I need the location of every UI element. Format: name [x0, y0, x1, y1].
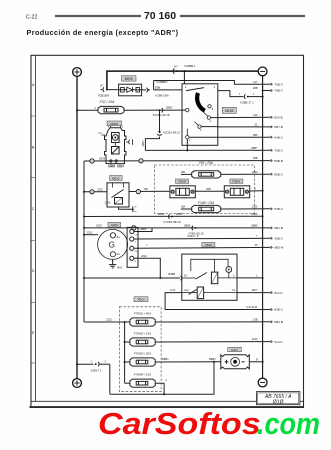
- svg-text:63B-C: 63B-C: [274, 207, 284, 211]
- svg-text:2: 2: [166, 379, 168, 382]
- svg-text:MA5: MA5: [117, 267, 123, 270]
- svg-text:D+: D+: [117, 252, 121, 256]
- svg-text:D+: D+: [184, 273, 188, 277]
- wire strip pin2 to exit 30B-C: [134, 237, 271, 240]
- svg-text:2BB6: 2BB6: [176, 212, 183, 216]
- contact lead mid: [204, 112, 208, 116]
- component ref 7B14 (hatched label, fuse box): [134, 297, 148, 302]
- end dot lighter wire: [262, 361, 264, 363]
- wire through diode module: [108, 89, 146, 91]
- fuse F01 body: [192, 171, 221, 178]
- S01 wire left jog: [165, 293, 263, 310]
- wire upper branch to exit 75B-C: [154, 81, 271, 85]
- wire fuse F7M04 to bottom run: [155, 383, 164, 394]
- switch contact circle mid (row 314): [207, 116, 210, 119]
- F500 sensor dot: [228, 269, 230, 271]
- svg-text:1: 1: [253, 93, 255, 96]
- svg-text:K327: K327: [231, 348, 238, 352]
- svg-text:1: 1: [255, 187, 257, 190]
- wire from switch bottom to wire A: [186, 139, 188, 151]
- wire strip pin3 to exit 8B5-M: [134, 246, 271, 249]
- svg-text:A: A: [32, 83, 35, 87]
- splice circle 1 right: [139, 159, 143, 163]
- svg-text:G: G: [109, 241, 115, 250]
- fuse box dashed outline: [119, 307, 161, 392]
- wire into fuse F34B: [181, 208, 192, 210]
- alternator connector strip: [127, 227, 138, 267]
- svg-text:K29BB.1: K29BB.1: [184, 64, 195, 68]
- svg-text:2: 2: [200, 129, 202, 132]
- svg-text:2BB7: 2BB7: [141, 140, 145, 147]
- svg-text:2222: 2222: [141, 254, 147, 258]
- lighter element dot: [233, 360, 237, 364]
- connector H7 feeding diode module: [101, 87, 108, 92]
- exit arrow 82B-C: [271, 308, 273, 310]
- junction plus bus fuse wire: [76, 109, 78, 111]
- junction 78B-C stub: [262, 90, 264, 92]
- diode holder right box: [224, 186, 249, 198]
- frame inner left margin line: [34, 55, 36, 401]
- wire from plus bus to connector K2B17.1: [77, 363, 94, 365]
- svg-text:B3BB: B3BB: [169, 272, 176, 276]
- svg-text:Ø1Ø: Ø1Ø: [273, 399, 284, 405]
- connector on row 228: [192, 226, 196, 231]
- svg-text:1: 1: [256, 274, 258, 278]
- exit arrow 30B-C: [271, 237, 273, 239]
- wire into fuse F01: [181, 173, 192, 175]
- connector arc below splice: [157, 134, 162, 135]
- svg-text:B: B: [32, 146, 35, 150]
- connector K2B17.1: [95, 362, 99, 367]
- svg-text:F7M01 / 40A: F7M01 / 40A: [134, 312, 151, 316]
- wire A: supply wire row B from jog corner to exit: [145, 149, 270, 151]
- svg-text:F01 / 25A: F01 / 25A: [199, 161, 213, 165]
- wire strip pin4 to relay box F500: [134, 258, 160, 278]
- svg-text:65B-C: 65B-C: [274, 172, 284, 176]
- wire: thick feed from diode module junction to minus terminal (top): [107, 71, 258, 90]
- fuse F7M03 body: [125, 358, 156, 366]
- starter pin 1: [120, 126, 122, 128]
- wire S01 to exit 82B-C: [263, 309, 271, 311]
- junction x84 alternator wire: [83, 234, 85, 236]
- row tick 2: [31, 176, 35, 178]
- svg-text:2B4: 2B4: [181, 205, 186, 208]
- F500 contact angled line: [196, 273, 208, 280]
- exit arrow 63B-C: [271, 208, 273, 210]
- exit arrow 78B-C: [271, 89, 273, 91]
- bottom drop vertical: [109, 364, 111, 394]
- svg-text:147: 147: [253, 80, 258, 84]
- alternator ground: [109, 259, 116, 268]
- switch rotary wedge (thick arc): [197, 93, 205, 111]
- cigar lighter K327 body: [221, 355, 250, 369]
- contact lead lower: [195, 122, 199, 126]
- svg-text:Sec: Sec: [185, 288, 190, 292]
- svg-text:F9004: F9004: [178, 180, 186, 184]
- starter internal link: [114, 143, 116, 147]
- component ref M12B (hatched label, ignition switch): [222, 107, 236, 113]
- svg-text:30a: 30a: [110, 165, 115, 168]
- wire fuse F7M03 to lighter K327: [155, 361, 220, 363]
- starter assembly body: [105, 128, 127, 164]
- svg-text:35B: 35B: [206, 187, 211, 191]
- starter motor box: [112, 133, 120, 143]
- exit arrow 8B5-M: [271, 246, 273, 248]
- strip pin circle 2: [130, 237, 134, 241]
- starter pin 3: [110, 126, 112, 128]
- svg-text:7: 7: [256, 234, 258, 238]
- switch contact circle left (input): [186, 108, 189, 111]
- svg-text:2: 2: [189, 139, 191, 142]
- row tick 1: [31, 115, 35, 117]
- svg-text:2B5: 2B5: [253, 133, 258, 137]
- svg-text:A020: A020: [111, 223, 118, 227]
- fuse F7M02 body: [125, 338, 156, 346]
- svg-text:82V-B: 82V-B: [274, 116, 282, 120]
- svg-text:2BB6: 2BB6: [140, 227, 147, 231]
- svg-text:314: 314: [253, 113, 258, 117]
- svg-text:612-C: 612-C: [274, 291, 283, 295]
- svg-text:2225: 2225: [105, 200, 111, 204]
- svg-text:78B-C: 78B-C: [274, 89, 284, 93]
- row tick 5: [31, 362, 35, 364]
- connector arc on fuse wire: [162, 108, 163, 113]
- exit arrow 82V-B: [271, 116, 273, 118]
- relay M022 top pin stubs: [113, 183, 124, 188]
- svg-text:64B-C: 64B-C: [274, 135, 284, 139]
- svg-text:8B1-B: 8B1-B: [274, 226, 283, 230]
- F500 wire coil2 to C1 pin: [204, 292, 237, 294]
- F500 main wire to coil: [182, 277, 196, 279]
- exit arrow 65B-C: [271, 173, 273, 175]
- fuse F7M04 body: [125, 379, 156, 387]
- wire switch row to exit 82V-B: [211, 116, 271, 118]
- starter right mini ground connector: [126, 139, 133, 145]
- exit arrow 75B-C row B: [271, 149, 273, 151]
- component ref F9004 right (hatched label): [230, 179, 243, 184]
- svg-text:1BB: 1BB: [253, 86, 258, 90]
- F500 sensor drop: [228, 272, 230, 278]
- starter contact tap right: [115, 160, 117, 162]
- F500 Sec contact: [189, 290, 197, 295]
- svg-text:22: 22: [255, 123, 258, 127]
- svg-text:C: C: [32, 207, 35, 211]
- starter H7 stub wire: [102, 134, 105, 136]
- wire lighter to negative bus: [249, 361, 262, 363]
- component ref M022 (hatched label, preheat relay): [110, 176, 123, 181]
- wire row 228 to exit 8B1-B: [84, 227, 270, 229]
- relay M022 lower box: [115, 198, 123, 205]
- svg-text:E: E: [32, 331, 35, 335]
- alternator terminal circle upper: [110, 233, 115, 238]
- switch top contact line: [186, 88, 204, 91]
- vertical distribution wire x84: [83, 161, 85, 322]
- junction fuse row1: [124, 321, 126, 323]
- svg-text:2BB6: 2BB6: [184, 224, 191, 228]
- svg-text:BBB1: BBB1: [162, 357, 169, 361]
- svg-text:7BB: 7BB: [253, 156, 258, 160]
- wire row 216.5: [84, 215, 263, 217]
- connector on wire 216.5: [169, 214, 173, 219]
- lighter plus sign: [225, 360, 229, 364]
- connector K2BB-17.1: [244, 94, 248, 99]
- svg-text:2: 2: [105, 361, 107, 364]
- F500 wire coil to C pin: [218, 277, 237, 279]
- fuse F7M01 body: [125, 318, 156, 326]
- svg-text:23B: 23B: [253, 317, 258, 321]
- svg-text:1BB: 1BB: [155, 85, 160, 89]
- relay M022 contact: [112, 190, 124, 198]
- svg-text:70 160: 70 160: [144, 10, 176, 22]
- svg-text:4: 4: [214, 86, 216, 89]
- F500 coil top link: [214, 259, 216, 272]
- svg-text:7: 7: [135, 242, 137, 244]
- connector at relay D+ input: [181, 276, 182, 281]
- strip pin circle 1: [130, 229, 134, 233]
- starter terminal 50 (hatched): [117, 164, 123, 168]
- wire vertical drop from fuse wire junction: [159, 110, 161, 132]
- svg-text:C1: C1: [232, 288, 236, 292]
- starter solenoid coil: [112, 147, 120, 155]
- svg-text:1: 1: [210, 120, 212, 123]
- connector H7 on top wire (K29BB.1): [173, 69, 177, 74]
- junction fuse row2: [124, 341, 126, 343]
- bottom heavy rule: [30, 406, 305, 408]
- svg-text:8B4-B: 8B4-B: [274, 320, 283, 324]
- svg-text:M12B: M12B: [225, 109, 233, 113]
- svg-text:B+: B+: [117, 235, 121, 239]
- svg-text:F34B / 25A: F34B / 25A: [198, 201, 214, 205]
- svg-text:7B14: 7B14: [137, 298, 144, 302]
- starter terminal 30a (hatched): [109, 164, 115, 168]
- svg-text:613-C: 613-C: [274, 340, 283, 344]
- exit arrow 612-C: [271, 292, 273, 294]
- wire x84 to alternator B+: [84, 234, 98, 236]
- svg-text:2224: 2224: [252, 337, 258, 341]
- starter motor dot: [114, 137, 116, 139]
- wire fuse F7M02 to exit 613-C: [155, 341, 270, 343]
- svg-text:1B77: 1B77: [251, 288, 258, 292]
- svg-text:2223: 2223: [252, 170, 258, 174]
- exit arrow 8B7-B: [271, 126, 273, 128]
- D+ feed wire from x84 vertical: [84, 277, 180, 279]
- diode module U box: [119, 84, 142, 96]
- title block box: [256, 392, 300, 406]
- header rule right: [180, 15, 305, 17]
- feed into fuse row 1 from x84: [84, 321, 130, 323]
- switch contact circle upper right: [208, 105, 211, 108]
- wire diode holder right to negative bus: [250, 190, 263, 192]
- relay M022 box: [107, 183, 129, 207]
- wire strip pin1 to row 228: [134, 228, 152, 232]
- svg-text:5141: 5141: [252, 305, 258, 309]
- svg-text:M001: M001: [111, 122, 119, 126]
- strip pin circle 4: [130, 256, 134, 260]
- component ref F500 (hatched label, relay unit): [202, 242, 215, 247]
- svg-text:1: 1: [239, 93, 241, 96]
- svg-text:25: 25: [255, 243, 258, 247]
- svg-text:2B26: 2B26: [251, 212, 258, 216]
- svg-text:2BB6: 2BB6: [158, 212, 165, 216]
- svg-text:B: B: [135, 261, 137, 263]
- svg-text:K2CB1-89.22: K2CB1-89.22: [163, 130, 180, 134]
- exit arrow 8B4-B: [271, 321, 273, 323]
- battery plus terminal top: [73, 68, 82, 77]
- svg-text:C: C: [233, 274, 235, 278]
- dashed harness box (mid): [154, 165, 254, 214]
- svg-text:H7: H7: [99, 131, 103, 135]
- switch contact circle lower (row 22): [198, 125, 201, 128]
- wire x84 to relay M022: [84, 191, 107, 193]
- wire lower branch into ignition switch: [154, 89, 182, 91]
- svg-text:30B-C: 30B-C: [274, 237, 284, 241]
- splice circle 2 on row 228: [132, 226, 136, 230]
- svg-text:Producción de energía (excepto: Producción de energía (excepto "ADR"): [27, 28, 179, 37]
- component ref K327 (hatched label, cigar lighter): [228, 347, 242, 352]
- wire fuse F34B to exit 63B-C: [221, 208, 271, 210]
- row tick 3: [31, 239, 35, 241]
- relay M022 lower box diagonal: [115, 198, 123, 205]
- junction bottom wire fuse F7M04: [163, 393, 165, 395]
- F500 relay coil 1: [211, 272, 217, 284]
- svg-text:1B33: 1B33: [99, 157, 106, 161]
- svg-text:1: 1: [91, 361, 93, 364]
- svg-text:8: 8: [212, 108, 214, 111]
- end dot C wire: [262, 277, 264, 279]
- wire switch pin4 to connector K2BB-17.1: [218, 91, 244, 97]
- contact lead bottom: [186, 129, 188, 136]
- wire connector to bottom drop: [100, 363, 110, 365]
- wire between diode holders: [195, 190, 224, 192]
- bottom return wire: [110, 362, 214, 394]
- splice circle 2 right: [136, 190, 140, 194]
- svg-text:2: 2: [193, 172, 195, 174]
- svg-text:2BB6: 2BB6: [251, 224, 258, 228]
- wire connector to negative bus: [249, 96, 263, 98]
- svg-text:K2BB-17.1: K2BB-17.1: [240, 100, 254, 104]
- frame inner bottom line: [31, 400, 304, 402]
- svg-text:M026: M026: [125, 77, 133, 81]
- svg-text:2326: 2326: [252, 204, 258, 208]
- svg-text:F9004: F9004: [232, 180, 240, 184]
- svg-text:H7: H7: [100, 84, 104, 88]
- junction x84 relay wire: [83, 191, 85, 193]
- ignition switch box: [182, 84, 218, 146]
- svg-text:2B1: 2B1: [181, 171, 186, 174]
- positive supply bus (left vertical): [76, 76, 78, 378]
- fuse common vertical: [124, 322, 126, 383]
- svg-text:K2B17.1: K2B17.1: [91, 369, 102, 373]
- junction x84 D+ feed: [83, 277, 85, 279]
- exit arrow 613-C: [271, 341, 273, 343]
- svg-text:K7CB1-8B.18: K7CB1-8B.18: [163, 220, 181, 224]
- end dot wire 216.5 at bus: [262, 215, 264, 217]
- battery minus terminal top: [258, 67, 267, 76]
- svg-text:M022: M022: [112, 176, 120, 180]
- wire: thick link from minus wire down to ignition switch pin 1: [183, 71, 185, 84]
- negative bus (right vertical): [262, 76, 264, 378]
- wire from plus bus to fuse F32: [77, 109, 98, 111]
- svg-text:2S: 2S: [134, 251, 137, 253]
- junction x84 wire 216.5: [83, 216, 85, 218]
- svg-text:2222: 2222: [106, 318, 112, 322]
- svg-text:2: 2: [95, 107, 97, 110]
- svg-text:S 01: S 01: [170, 288, 176, 292]
- wire C1 to exit 612-C: [237, 292, 270, 294]
- alternator circle: [98, 229, 128, 259]
- junction at negative bus: [262, 96, 264, 98]
- svg-text:BBB1: BBB1: [209, 357, 216, 361]
- splice dot on drop: [158, 131, 160, 133]
- svg-text:2BB7: 2BB7: [251, 146, 258, 150]
- junction on thick top wire: [183, 70, 185, 72]
- svg-text:F7M02 / 15A: F7M02 / 15A: [134, 332, 151, 336]
- wire C pin to negative bus: [237, 277, 263, 279]
- wire jog to wire A: [145, 137, 159, 151]
- svg-text:75B-C: 75B-C: [274, 149, 284, 153]
- fuse F34B body: [192, 205, 221, 212]
- lighter minus sign: [242, 361, 245, 363]
- F500 sensor circle: [226, 267, 232, 273]
- svg-text:82B-C: 82B-C: [274, 308, 284, 312]
- component ref M026 (hatched label, diode module): [122, 76, 137, 81]
- wire fuse F32 to switch contact: [124, 109, 186, 111]
- svg-text:F7M04 / 15A: F7M04 / 15A: [134, 373, 151, 377]
- starter contact tap left: [110, 160, 112, 162]
- wire switch row bottom to exit: [189, 136, 270, 138]
- svg-text:C-22: C-22: [26, 14, 37, 20]
- end dot at bus: [262, 190, 264, 192]
- exit arrow 64B-C: [271, 136, 273, 138]
- exit arrow 75B-C: [271, 83, 273, 85]
- wire fuse F01 to exit 65B-C: [221, 173, 271, 175]
- junction wire A at switch drop: [186, 149, 188, 151]
- ground for relay M022: [131, 206, 136, 212]
- svg-text:1: 1: [185, 86, 187, 89]
- alternator terminal circle lower: [110, 252, 115, 257]
- F500 internal top wire: [191, 259, 228, 271]
- battery plus terminal bottom: [73, 379, 82, 388]
- svg-text:F7M03 / 20A: F7M03 / 20A: [134, 352, 151, 356]
- svg-text:2222: 2222: [87, 230, 93, 234]
- header rule left: [55, 15, 141, 17]
- wire B: starter row wire: [84, 160, 270, 162]
- diode D1 symbol: [121, 87, 140, 92]
- svg-text:7: 7: [146, 243, 148, 247]
- row tick 4: [31, 301, 35, 303]
- svg-text:2222: 2222: [96, 224, 102, 228]
- wire fuse F7M01 to exit 8B4-B: [155, 321, 270, 323]
- frame outer border: [31, 55, 304, 407]
- svg-text:8B5-M: 8B5-M: [274, 246, 284, 250]
- component ref A020 (hatched label, alternator): [108, 222, 121, 227]
- svg-text:2BB7: 2BB7: [166, 106, 173, 110]
- junction at lighter wire: [213, 361, 215, 363]
- svg-text:8B7-B: 8B7-B: [274, 125, 283, 129]
- junction pin4 path on D+ wire: [159, 277, 161, 279]
- component ref F9004 left (hatched label): [176, 179, 189, 184]
- exit stub 78B-C: [263, 90, 271, 92]
- splice circle 2 left: [90, 190, 94, 194]
- strip pin circle 3: [130, 246, 134, 250]
- F500 relay coil 2: [197, 287, 203, 299]
- svg-text:H7: H7: [174, 65, 178, 69]
- exit arrow 8B1-B: [271, 227, 273, 229]
- svg-text:80B-B: 80B-B: [274, 159, 283, 163]
- relay M022 ground wire: [119, 207, 133, 209]
- svg-text:K2B1B/8: K2B1B/8: [98, 93, 109, 97]
- svg-text:F32 / 10A: F32 / 10A: [100, 100, 115, 104]
